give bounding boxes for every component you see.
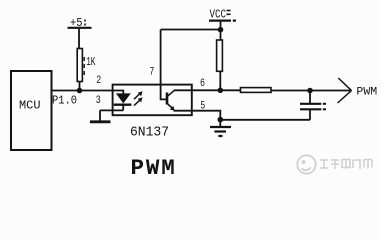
wire cap bottom to ground node [220, 119, 310, 121]
svg-text:3: 3 [96, 95, 101, 107]
artifact colon marks right of +5 [84, 20, 86, 26]
LED cathode bar [114, 103, 132, 105]
ground symbol [210, 120, 231, 136]
wire pin5 to ground node [192, 111, 220, 120]
svg-text:+5: +5 [70, 16, 83, 30]
svg-text:MCU: MCU [19, 100, 41, 113]
capacitor C1 bottom stub [309, 109, 311, 120]
svg-text:PWM: PWM [131, 155, 177, 181]
MCU box U2 [11, 71, 52, 150]
light arrow 2 [134, 97, 143, 105]
svg-text:VCC: VCC [210, 7, 227, 21]
watermark logo circle [297, 155, 315, 173]
artifact dashes right of VCC [227, 11, 231, 15]
wire pin3 [100, 109, 123, 111]
svg-text:PWM: PWM [356, 87, 377, 99]
capacitor C1 top stub [309, 91, 311, 104]
svg-text:2: 2 [96, 75, 101, 87]
svg-text:7: 7 [149, 67, 154, 79]
optocoupler U1 6N137 box [113, 85, 192, 116]
wire pin3 down to ground bar [99, 110, 101, 121]
wire R1 to P1.0 [79, 82, 81, 91]
svg-text:6: 6 [200, 78, 205, 90]
LED cathode stub [122, 106, 124, 111]
junction dot cap node [307, 88, 313, 94]
junction dot pin6 [218, 88, 224, 94]
resistor R1 1K [77, 49, 82, 82]
pin7 enable wire from VCC rail to base [161, 30, 167, 100]
artifact dashed mark right of R1 [83, 57, 85, 76]
junction dot VCC rail [218, 27, 224, 33]
resistor R2 pullup [217, 40, 223, 71]
wire pin6 to R3 [192, 89, 240, 91]
wire VCC to R2 [220, 30, 222, 40]
LED anode wire inside opto [113, 91, 123, 94]
ground bar for LED return [90, 120, 111, 123]
phototransistor collector [168, 90, 175, 96]
wire R3 to PWM arrow [272, 90, 352, 92]
VCC rail wire to pin7 [161, 29, 221, 31]
PWM output arrow [338, 78, 352, 103]
phototransistor base bar [166, 93, 169, 105]
junction dot P1.0/R1 [77, 88, 83, 94]
capacitor C1 plates [300, 104, 321, 110]
artifact dashes right of capacitor [323, 104, 326, 110]
wire R2 to pin6 node [219, 71, 221, 90]
resistor R3 series [241, 88, 272, 93]
phototransistor emitter with arrow [168, 104, 175, 111]
svg-text:1K: 1K [86, 56, 95, 69]
power +5 supply [68, 28, 92, 49]
junction dot ground node [218, 117, 224, 123]
light arrow 1 [134, 91, 143, 99]
watermark text 玩转单片机 [320, 159, 372, 169]
svg-text:P1.0: P1.0 [52, 95, 77, 108]
power VCC supply [209, 21, 236, 30]
wire emitter to pin5 [174, 110, 193, 112]
wire collector to pin6 [174, 89, 192, 91]
svg-text:6N137: 6N137 [130, 125, 169, 141]
wire P1.0 net MCU to opto pin2 [52, 90, 114, 92]
LED D1 triangle [116, 93, 131, 103]
